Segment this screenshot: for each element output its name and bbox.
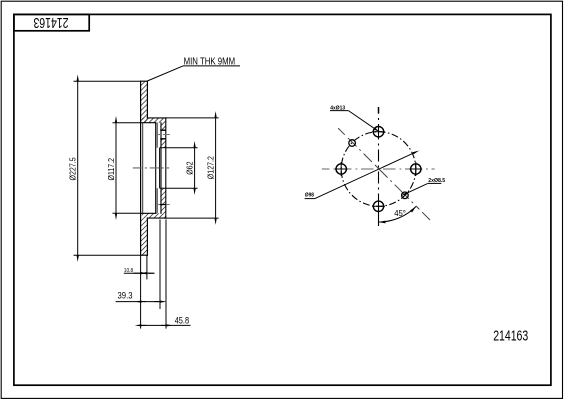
bolt hole axis top <box>157 134 171 136</box>
section view: friction ring bottom (hatched) <box>141 213 166 255</box>
svg-text:214163: 214163 <box>33 15 68 32</box>
section outline: ring outer diameter and faces <box>141 81 148 255</box>
section view: friction ring top (hatched) <box>141 81 166 123</box>
front view: bolt circle Ø98 (dash-dot) <box>341 132 416 207</box>
dimension Ø227.5 <box>68 81 141 255</box>
dimension 45 degrees arc <box>379 207 417 224</box>
section: bolt hole edges in flange <box>160 130 166 139</box>
title box <box>14 14 89 30</box>
bolt hole left (Ø13) <box>335 162 348 176</box>
dimension Ø127.2 <box>166 118 219 218</box>
part number 214163 bottom right <box>493 327 528 344</box>
svg-text:Ø227.5: Ø227.5 <box>68 157 78 181</box>
svg-text:45°: 45° <box>394 209 406 218</box>
svg-text:Ø98: Ø98 <box>305 192 315 198</box>
section: inner elevation lines <box>143 123 158 214</box>
svg-text:39.3: 39.3 <box>118 291 133 301</box>
leader 4xØ13 <box>330 105 374 128</box>
extension lines below section <box>141 220 166 329</box>
leader 2xØ8.5 <box>407 178 446 193</box>
small hole NW (Ø8.5) <box>349 140 356 147</box>
svg-text:Ø62: Ø62 <box>185 161 195 174</box>
svg-text:Ø117.2: Ø117.2 <box>106 158 116 181</box>
svg-text:214163: 214163 <box>493 327 528 344</box>
leader Ø98 <box>305 153 413 198</box>
title box part number 214163 (rotated 180) <box>33 15 68 32</box>
bolt hole axis bottom <box>157 204 171 206</box>
dimension Ø62 <box>166 148 198 189</box>
dimension 39.3 <box>116 291 160 302</box>
bolt hole top (Ø13) <box>372 127 385 137</box>
leader MIN THK 9MM <box>147 57 240 81</box>
front view: vertical centerline <box>378 107 380 226</box>
front view: horizontal centerline <box>322 168 435 170</box>
section outline: hat wall edges <box>141 118 166 218</box>
dimension 45.8 <box>141 315 191 325</box>
svg-text:Ø127.2: Ø127.2 <box>206 156 216 179</box>
small hole SE (Ø8.5) <box>402 192 409 199</box>
dimension 10.8 <box>124 268 155 274</box>
section view: hat flange top (hatched, bolt hole gap) <box>160 123 166 148</box>
front view: diagonal centerline NW-SE <box>338 128 430 220</box>
section: hub bore edges <box>160 148 166 189</box>
section view: hat flange bottom (hatched) <box>160 188 166 213</box>
bolt hole right (Ø13) <box>409 162 422 176</box>
section axis centerline <box>133 167 169 169</box>
dimension Ø117.2 <box>106 123 141 214</box>
svg-text:45.8: 45.8 <box>175 315 189 325</box>
svg-text:10.8: 10.8 <box>124 268 133 274</box>
bolt hole bottom (Ø13) <box>372 201 385 211</box>
